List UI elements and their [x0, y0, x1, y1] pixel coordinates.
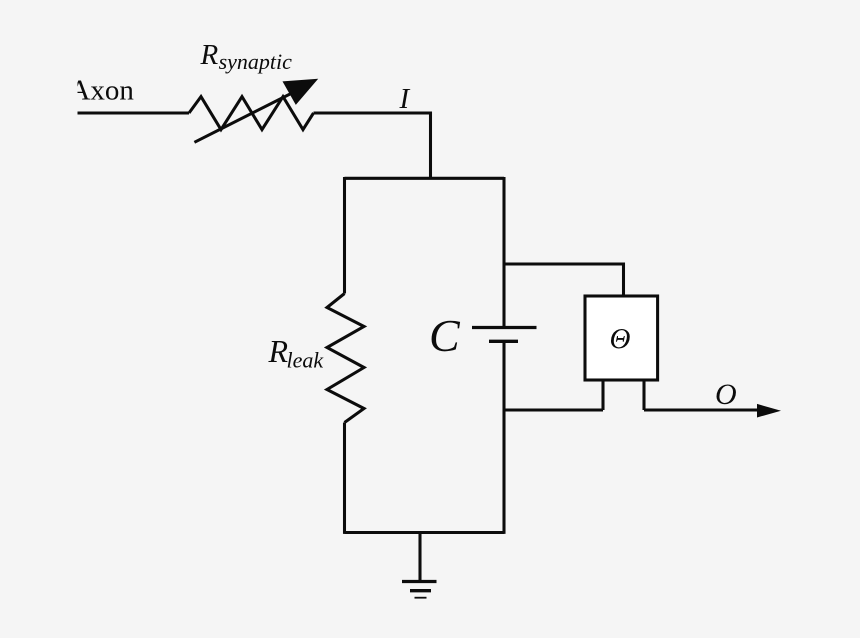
svg-text:Θ: Θ [610, 323, 631, 355]
svg-text:I: I [399, 83, 411, 115]
svg-text:O: O [715, 378, 737, 411]
svg-text:leak: leak [287, 347, 325, 372]
svg-text:synaptic: synaptic [219, 49, 293, 74]
svg-text:R: R [200, 39, 219, 71]
svg-text:R: R [268, 333, 289, 369]
svg-text:C: C [429, 310, 461, 361]
svg-text:Axon: Axon [69, 74, 134, 106]
